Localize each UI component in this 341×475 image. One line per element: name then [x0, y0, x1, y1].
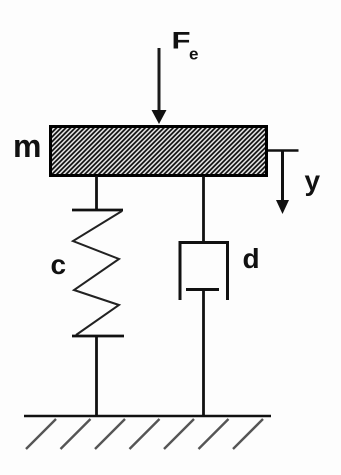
- svg-text:e: e: [189, 45, 198, 64]
- svg-text:y: y: [305, 165, 321, 196]
- displacement arrow y: [276, 151, 289, 215]
- svg-text:m: m: [13, 128, 41, 164]
- damper d (dashpot cylinder): [179, 241, 230, 300]
- wire: damper piston to ground: [202, 290, 205, 417]
- svg-text:d: d: [243, 243, 260, 274]
- spring c: [72, 210, 124, 336]
- svg-text:F: F: [172, 27, 191, 54]
- wire: mass to spring: [95, 176, 98, 210]
- mass block m (hatched): [51, 127, 267, 176]
- svg-text:c: c: [51, 249, 67, 280]
- ground line: [24, 415, 271, 418]
- force arrow Fe (applied force): [152, 48, 167, 124]
- displacement reference line: [268, 149, 299, 152]
- wire: spring to ground: [95, 336, 98, 416]
- wire: mass to damper: [202, 176, 205, 242]
- ground hatching: [26, 419, 263, 449]
